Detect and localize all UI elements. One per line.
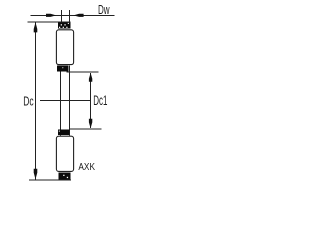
needle roller bottom (side view) [56,136,73,171]
arrow Dc1 top [89,73,92,82]
Dc1 top extension line [67,72,99,73]
arrow Dc top [34,22,38,32]
Dc1 bottom extension line [69,128,101,129]
top extension line (Dc upper datum) [28,21,71,22]
svg-text:Dw: Dw [98,2,110,17]
bottom extension line (Dc lower datum) [29,179,71,180]
cage hatch band top [58,22,70,28]
cage edge line right (inner section) [69,66,70,136]
centerline (bearing axis) [40,100,90,101]
cage edge line left (inner section) [60,72,61,136]
cage hatch band bottom [58,173,70,180]
svg-text:Dc1: Dc1 [93,93,107,108]
arrow Dc1 bottom [89,119,92,129]
extension stub left (above top cage band) [61,10,62,23]
svg-text:Dc: Dc [23,94,34,109]
cage hatch band upper-inner [57,65,68,71]
dimension line Dc [35,22,36,179]
arrow Dc bottom [34,169,38,180]
svg-text:AXK: AXK [78,162,95,173]
extension stub right (above top cage band) [69,10,70,23]
needle roller top (side view) [56,30,73,65]
arrow Dw right [73,14,83,17]
cage hatch band lower-inner [58,130,70,135]
arrow Dw left [46,14,56,17]
dimension line Dw [30,15,114,16]
dimension line Dc1 [90,73,91,128]
